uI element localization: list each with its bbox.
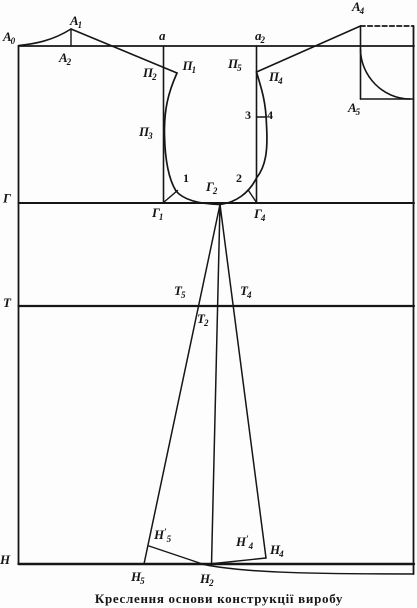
right shoulder line П4-A4 bbox=[257, 26, 361, 72]
hip/hem line Н bbox=[19, 563, 415, 565]
svg-text:2: 2 bbox=[236, 171, 242, 185]
front neck curve A5 bbox=[361, 49, 411, 99]
back neck curve A0-A1 bbox=[19, 29, 72, 46]
svg-text:а: а bbox=[159, 28, 166, 43]
vertical line a2-Г4 bbox=[256, 46, 258, 203]
waist line Т bbox=[19, 305, 415, 307]
left slant Г2-Н5 bbox=[144, 205, 220, 565]
top horizontal line A0-a-a2 bbox=[19, 45, 415, 47]
tick A1-A2 bbox=[70, 29, 72, 46]
svg-text:Креслення основи конструкції в: Креслення основи конструкції виробу bbox=[95, 591, 343, 606]
left edge A0-Н bbox=[18, 46, 20, 564]
chest line Г bbox=[19, 202, 415, 204]
hem curve Н2-right edge bbox=[204, 565, 414, 575]
svg-text:Т: Т bbox=[3, 295, 12, 310]
svg-text:1: 1 bbox=[183, 171, 189, 185]
center line Г2-Н2 bbox=[212, 205, 221, 566]
right armhole curve П4-Г2 bbox=[220, 72, 267, 205]
left shoulder line A1-П1 bbox=[71, 29, 177, 73]
vertical line a-Г1 bbox=[163, 46, 165, 203]
svg-text:Н: Н bbox=[0, 552, 11, 567]
right hem line Н2-Н4 bbox=[204, 558, 266, 565]
left hem line Н5-Н2 bbox=[149, 546, 204, 565]
right slant Г2-Н4 bbox=[220, 205, 266, 559]
left armhole curve П1-Г2 bbox=[164, 73, 220, 205]
neck box left edge A4-A5 bbox=[360, 26, 362, 99]
left bisector at Г1 bbox=[164, 191, 178, 203]
neck box bottom edge bbox=[361, 98, 414, 100]
svg-text:4: 4 bbox=[267, 108, 273, 122]
tick 3-4 bbox=[257, 116, 267, 118]
right bisector at Г4 bbox=[249, 191, 257, 203]
right edge bbox=[413, 26, 415, 574]
neck box top edge (dashed) bbox=[361, 25, 414, 27]
svg-text:3: 3 bbox=[245, 108, 251, 122]
svg-text:Г: Г bbox=[2, 191, 11, 206]
